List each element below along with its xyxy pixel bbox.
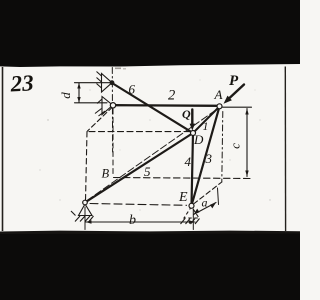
bottom black band (0, 232, 300, 300)
svg-text:23: 23 (9, 70, 34, 96)
dimension b right extension line (192, 209, 194, 230)
left table border (2, 67, 4, 231)
arrowhead of force Q (190, 124, 195, 131)
dashed front-left vertical edge (86, 132, 88, 202)
force Q arrow (191, 110, 193, 126)
dash-dot axis through wall pins (111, 68, 113, 153)
dashed depth edge: lower pin to front-left top corner (88, 107, 113, 131)
dimension c arrows (245, 109, 248, 115)
bar 2 (114, 104, 220, 107)
bar 1 (193, 107, 220, 134)
dashed bottom back edge (114, 178, 251, 179)
force P arrow (230, 85, 245, 99)
node E (189, 203, 194, 208)
svg-text:Q: Q (182, 107, 191, 121)
dimension b arrows (86, 220, 92, 223)
dimension d upper reference line (75, 82, 111, 84)
svg-text:c: c (228, 143, 243, 149)
dimension b left extension line (84, 207, 86, 230)
svg-text:B: B (102, 167, 110, 181)
node B (83, 200, 88, 205)
support at E dashed triangle (181, 207, 200, 225)
dash-dot vertical below A (222, 112, 223, 183)
bottom table border line (0, 231, 300, 234)
svg-text:a: a (202, 196, 208, 210)
svg-text:D: D (193, 132, 204, 147)
svg-text:5: 5 (144, 164, 151, 179)
upper wall pin dot (110, 80, 115, 85)
dimension c measure line (246, 109, 248, 177)
upper wall pin support triangle (97, 72, 113, 93)
upper support hatching (97, 72, 102, 77)
dimension c top reference line (223, 106, 252, 108)
lower support hatching (95, 109, 102, 114)
support at B triangle (71, 204, 94, 222)
svg-text:b: b (129, 213, 136, 228)
svg-text:P: P (229, 73, 239, 89)
svg-text:2: 2 (168, 88, 175, 104)
svg-text:6: 6 (129, 82, 136, 97)
bar 5 (85, 133, 193, 203)
dashed bottom front edge B to E (90, 204, 187, 206)
svg-text:4: 4 (185, 154, 192, 169)
svg-text:d: d (58, 92, 73, 99)
dimension d lower reference line (75, 102, 108, 104)
dashed depth edge at E (194, 182, 222, 204)
top black band (0, 0, 300, 67)
bar 6 (112, 83, 193, 133)
support at E hatching (181, 219, 186, 225)
svg-text:1: 1 (203, 119, 209, 133)
dashed back-left vertical edge (112, 109, 114, 177)
right table border (284, 67, 286, 232)
dimension a arrows (194, 209, 200, 215)
arrowhead of force P (224, 96, 232, 104)
dimension b measure line (86, 221, 196, 223)
svg-text:E: E (178, 190, 188, 205)
dash-dot construction line B to A (87, 109, 218, 201)
dimension a end tick (218, 188, 219, 205)
svg-text:A: A (214, 87, 223, 102)
bar 3 (192, 107, 220, 206)
bar 4 (192, 133, 194, 206)
wall mark left of B (71, 211, 76, 216)
scan speckles (39, 68, 270, 211)
dimension d measure line (78, 83, 80, 103)
node A (217, 104, 222, 109)
support at B hatching (75, 216, 80, 222)
dimension a measure line (194, 203, 217, 215)
svg-text:3: 3 (205, 151, 213, 166)
node D (191, 131, 196, 136)
lower wall pin support triangle (95, 97, 113, 117)
lower wall pin circle (110, 103, 115, 108)
dimension d arrows (77, 83, 80, 89)
dashed top front edge to D (89, 131, 190, 133)
